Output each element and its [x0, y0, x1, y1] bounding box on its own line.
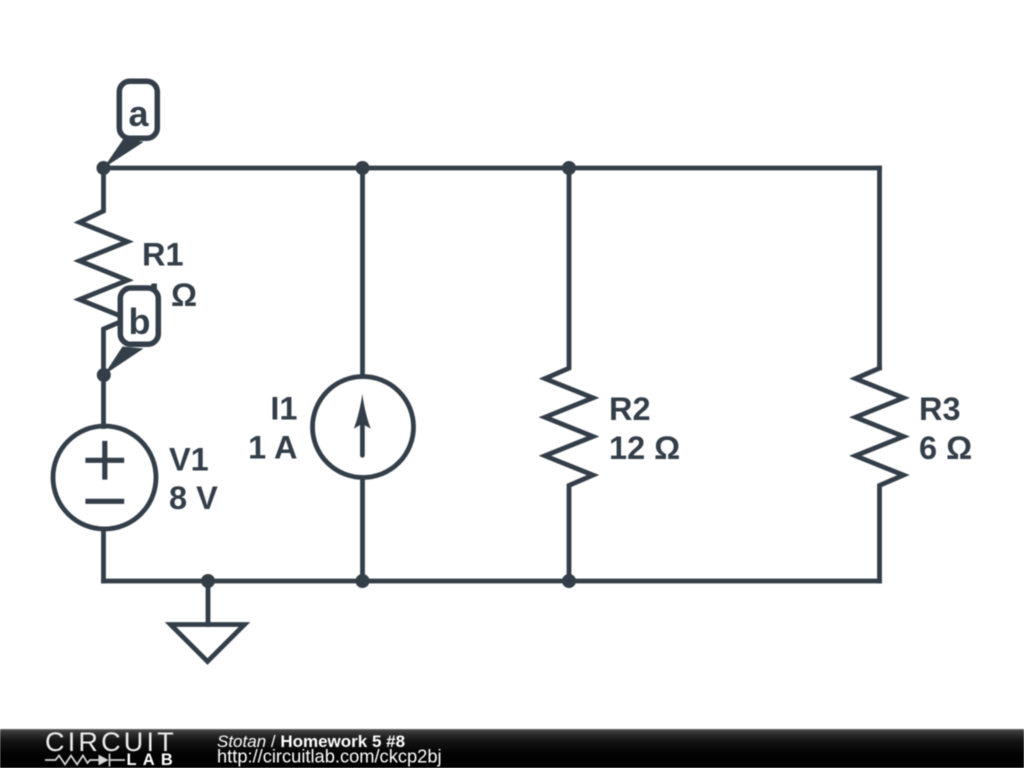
junction dot bottom of I1 — [356, 574, 370, 588]
V1 minus sign — [88, 499, 122, 504]
junction dot ground node — [201, 574, 215, 588]
wire I1 bottom to bottom net — [360, 479, 365, 582]
svg-text:b: b — [129, 301, 151, 342]
net flag a — [104, 81, 158, 168]
junction dot top of I1 — [356, 161, 370, 175]
wire top net to I1 — [360, 168, 365, 376]
resistor R3 — [856, 368, 904, 581]
resistor R1 — [80, 168, 128, 375]
I1 arrow head — [354, 394, 371, 429]
svg-text:LAB: LAB — [127, 751, 180, 768]
svg-text:6 Ω: 6 Ω — [919, 430, 972, 466]
svg-text:R2: R2 — [609, 391, 651, 427]
svg-text:I1: I1 — [270, 391, 297, 427]
svg-text:V1: V1 — [169, 442, 209, 478]
svg-text:Ω: Ω — [171, 277, 197, 313]
svg-text:1 A: 1 A — [248, 430, 297, 466]
svg-text:a: a — [128, 93, 149, 134]
svg-text:12 Ω: 12 Ω — [609, 430, 680, 466]
svg-text:http://circuitlab.com/ckcp2bj: http://circuitlab.com/ckcp2bj — [217, 746, 442, 767]
voltage source V1 circle — [53, 426, 156, 529]
junction dot bottom of R2 — [562, 574, 576, 588]
junction dot node a — [97, 161, 111, 175]
junction dot node b — [97, 368, 111, 382]
current source I1 circle — [313, 377, 414, 478]
junction dot top of R2 — [562, 161, 576, 175]
V1 plus sign — [88, 444, 122, 502]
wire node b to V1 top — [101, 375, 106, 427]
CircuitLab logo resistor-diode glyph — [45, 754, 125, 767]
wire right side drop to R3 — [877, 168, 882, 368]
svg-text:R3: R3 — [919, 391, 961, 427]
svg-text:R1: R1 — [142, 237, 184, 273]
wire V1 bottom to bottom net — [101, 529, 106, 581]
wire bottom ground net (horizontal) — [104, 579, 880, 584]
I1 arrow shaft — [360, 424, 365, 455]
ground symbol — [171, 581, 245, 662]
net flag b — [104, 288, 159, 375]
wire top net a (horizontal) — [104, 166, 880, 171]
resistor R2 — [545, 168, 593, 581]
svg-text:8 V: 8 V — [169, 480, 218, 516]
